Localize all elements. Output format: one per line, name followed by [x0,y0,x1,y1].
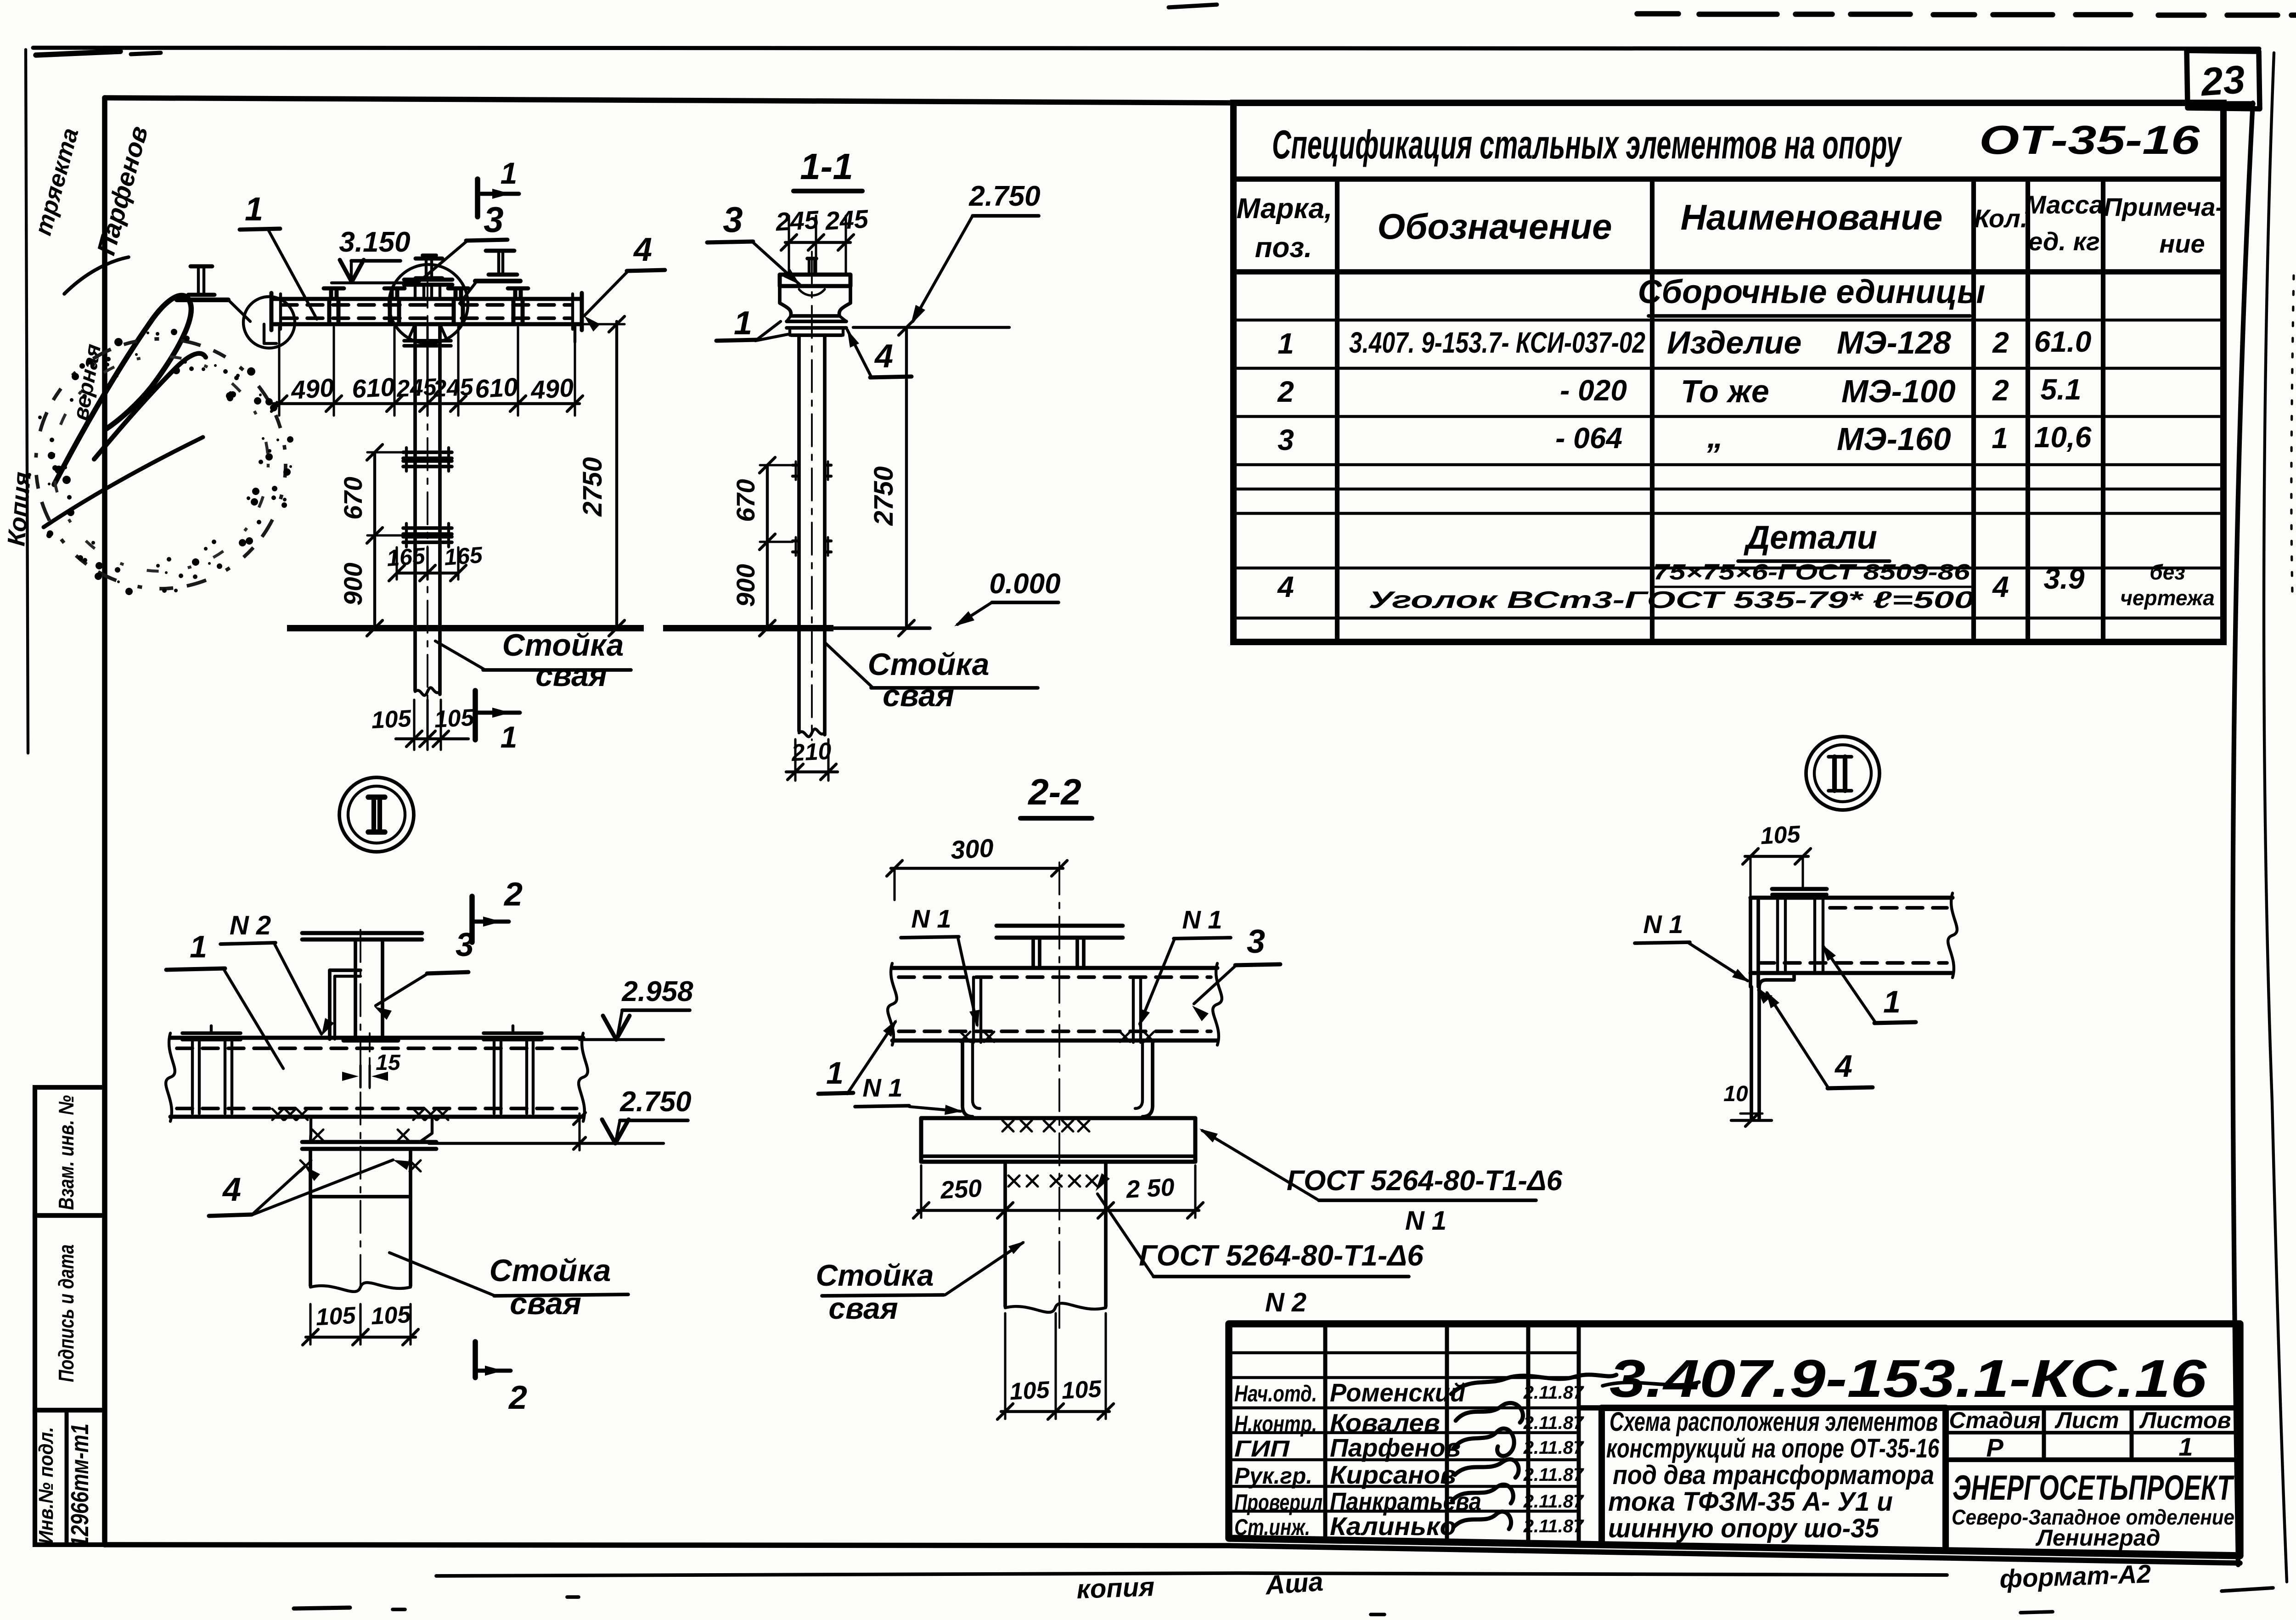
svg-text:формат-А2: формат-А2 [1999,1559,2151,1593]
svg-text:N 1: N 1 [1405,1206,1446,1236]
svg-text:2: 2 [1277,375,1294,408]
svg-text:МЭ-128: МЭ-128 [1837,325,1951,360]
svg-text:2.750: 2.750 [968,180,1040,212]
svg-text:Сборочные единицы: Сборочные единицы [1638,274,1986,310]
svg-text:1: 1 [1883,984,1901,1019]
svg-text:Стойка: Стойка [868,647,990,682]
svg-text:300: 300 [950,833,995,865]
svg-text:2.11.87: 2.11.87 [1523,1491,1584,1512]
svg-text:23: 23 [2199,57,2246,105]
svg-text:Изделие: Изделие [1667,325,1801,360]
svg-text:3.407. 9-153.7- КСИ-037-02: 3.407. 9-153.7- КСИ-037-02 [1349,326,1645,359]
svg-text:1: 1 [190,929,207,964]
svg-text:4: 4 [633,231,652,268]
svg-text:610: 610 [351,372,396,404]
svg-text:чертежа: чертежа [2120,586,2215,610]
svg-text:Лист: Лист [2054,1407,2119,1433]
svg-text:поз.: поз. [1255,232,1312,264]
svg-text:245: 245 [395,374,438,403]
svg-text:490: 490 [290,373,335,405]
svg-text:1: 1 [2178,1432,2193,1461]
svg-text:Роменский: Роменский [1330,1378,1465,1407]
svg-text:61.0: 61.0 [2034,325,2092,358]
svg-text:- 064: - 064 [1555,422,1622,455]
svg-text:610: 610 [474,372,519,404]
svg-text:Калинько: Калинько [1330,1512,1456,1541]
svg-text:210: 210 [790,738,832,767]
svg-text:МЭ-100: МЭ-100 [1841,373,1956,409]
svg-text:2: 2 [508,1379,527,1416]
svg-text:2.958: 2.958 [621,976,693,1007]
svg-text:Масса: Масса [2025,190,2104,219]
svg-text:2 50: 2 50 [1125,1173,1175,1203]
svg-text:Проверил: Проверил [1234,1490,1322,1515]
svg-text:свая: свая [510,1286,581,1321]
svg-text:3.9: 3.9 [2044,562,2085,595]
svg-text:Аша: Аша [1264,1567,1324,1601]
svg-text:ЭНЕРГОСЕТЬПРОЕКТ: ЭНЕРГОСЕТЬПРОЕКТ [1953,1468,2234,1507]
svg-text:ГИП: ГИП [1234,1436,1290,1462]
svg-text:1: 1 [501,720,518,754]
svg-text:2: 2 [1992,326,2009,359]
svg-text:3.150: 3.150 [339,226,410,258]
svg-text:тока ТФЗМ-35 А- У1 и: тока ТФЗМ-35 А- У1 и [1608,1487,1893,1517]
svg-text:Стадия: Стадия [1949,1407,2040,1433]
svg-text:2750: 2750 [578,457,608,517]
svg-text:Рук.гр.: Рук.гр. [1234,1463,1312,1489]
svg-text:3: 3 [484,199,503,240]
svg-text:Стойка: Стойка [816,1258,934,1292]
svg-text:Кирсанов: Кирсанов [1330,1460,1456,1489]
svg-text:Ст.инж.: Ст.инж. [1234,1514,1310,1540]
svg-text:N 1: N 1 [911,904,951,933]
svg-text:4: 4 [1992,570,2009,603]
svg-text:2.750: 2.750 [619,1086,691,1118]
svg-text:Схема расположения элементов: Схема расположения элементов [1609,1407,1938,1437]
svg-text:3: 3 [1277,423,1294,456]
svg-text:1-1: 1-1 [800,146,853,187]
svg-text:Взам. инв. №: Взам. инв. № [54,1095,78,1210]
svg-text:1: 1 [245,191,263,228]
svg-text:900: 900 [338,562,367,605]
svg-text:105: 105 [315,1302,357,1331]
svg-text:10,6: 10,6 [2034,421,2092,454]
svg-text:0.000: 0.000 [989,568,1060,600]
svg-text:670: 670 [338,477,367,519]
svg-text:245: 245 [432,374,474,403]
svg-text:Спецификация стальных элемен: Спецификация стальных элементов на опору [1272,122,1902,167]
svg-text:75×75×6-ГОСТ 8509-86: 75×75×6-ГОСТ 8509-86 [1653,560,1970,585]
svg-text:Листов: Листов [2139,1407,2231,1433]
svg-text:То же: То же [1681,373,1769,409]
svg-text:Детали: Детали [1743,519,1877,556]
svg-text:ед. кг: ед. кг [2028,227,2100,256]
svg-text:2.11.87: 2.11.87 [1523,1383,1584,1403]
svg-text:900: 900 [731,564,760,607]
svg-text:105: 105 [371,705,412,734]
svg-text:5.1: 5.1 [2041,373,2082,406]
svg-text:ОТ-35-16: ОТ-35-16 [1979,117,2200,163]
svg-text:Н.контр.: Н.контр. [1234,1411,1317,1437]
svg-text:Обозначение: Обозначение [1378,206,1612,247]
svg-text:N 1: N 1 [1182,905,1222,934]
svg-text:без: без [2150,560,2185,584]
svg-text:250: 250 [939,1175,982,1204]
svg-text:N 2: N 2 [1265,1288,1306,1317]
svg-text:конструкций на опоре ОТ-35-16: конструкций на опоре ОТ-35-16 [1606,1434,1940,1463]
svg-text:3: 3 [456,927,474,963]
svg-text:10: 10 [1723,1082,1748,1106]
svg-text:Наименование: Наименование [1681,197,1943,237]
svg-text:Ленинград: Ленинград [2035,1525,2160,1551]
svg-text:Стойка: Стойка [502,628,624,663]
svg-text:1: 1 [734,305,752,342]
svg-text:1: 1 [501,156,518,190]
svg-text:105: 105 [370,1301,412,1330]
svg-text:Марка,: Марка, [1237,193,1333,225]
svg-text:3: 3 [1247,923,1265,960]
svg-text:N 2: N 2 [230,911,271,940]
svg-text:ние: ние [2159,229,2205,258]
svg-text:2750: 2750 [869,466,899,526]
svg-text:245: 245 [775,205,820,236]
svg-text:2.11.87: 2.11.87 [1523,1465,1584,1485]
svg-text:Примеча-: Примеча- [2104,192,2224,221]
svg-text:105: 105 [433,704,475,733]
svg-text:Нач.отд.: Нач.отд. [1234,1381,1317,1406]
svg-text:1: 1 [1277,327,1294,360]
svg-text:1: 1 [1992,422,2008,455]
svg-text:- 020: - 020 [1560,374,1627,407]
svg-text:105: 105 [1760,821,1801,850]
svg-text:2.11.87: 2.11.87 [1523,1438,1584,1458]
svg-text:4: 4 [1277,570,1294,603]
svg-text:105: 105 [1009,1377,1051,1406]
svg-text:N 1: N 1 [862,1073,902,1102]
svg-text:N 1: N 1 [1643,910,1683,939]
svg-text:2: 2 [1992,374,2009,407]
svg-text:105: 105 [1061,1376,1103,1405]
svg-text:4: 4 [1834,1049,1852,1084]
svg-text:Подпись и дата: Подпись и дата [54,1244,78,1382]
svg-text:Р: Р [1986,1433,2003,1462]
svg-text:Инв.№ подл.: Инв.№ подл. [35,1427,57,1544]
svg-text:4: 4 [222,1171,241,1208]
svg-text:под два трансформатора: под два трансформатора [1613,1460,1934,1490]
svg-text:2.11.87: 2.11.87 [1523,1516,1584,1536]
svg-text:3.407.9-153.1-КС.16: 3.407.9-153.1-КС.16 [1609,1349,2207,1408]
svg-text:Кол.: Кол. [1974,204,2028,233]
svg-text:свая: свая [883,678,954,713]
svg-text:3: 3 [723,199,743,240]
svg-text:670: 670 [731,479,760,522]
svg-text:ГОСТ 5264-80-Т1-Δ6: ГОСТ 5264-80-Т1-Δ6 [1287,1165,1563,1197]
svg-text:490: 490 [529,373,575,405]
svg-text:Парфенов: Парфенов [1330,1433,1461,1462]
svg-text:МЭ-160: МЭ-160 [1837,421,1951,457]
svg-text:шинную опору шо-35: шинную опору шо-35 [1608,1513,1880,1543]
svg-text:165: 165 [443,542,484,570]
svg-text:Уголок ВСт3-ГОСТ 535-79* ℓ=50: Уголок ВСт3-ГОСТ 535-79* ℓ=500 [1368,587,1975,613]
svg-text:4: 4 [874,338,893,375]
svg-text:копия: копия [1076,1572,1155,1604]
svg-text:165: 165 [386,543,426,571]
svg-text:„: „ [1707,419,1723,455]
svg-text:ГОСТ 5264-80-Т1-Δ6: ГОСТ 5264-80-Т1-Δ6 [1139,1239,1424,1272]
svg-text:свая: свая [535,658,607,693]
svg-text:2.11.87: 2.11.87 [1523,1413,1584,1433]
svg-text:12966тм-т1: 12966тм-т1 [66,1423,94,1547]
svg-text:15: 15 [376,1051,401,1075]
svg-text:2-2: 2-2 [1027,771,1081,812]
svg-text:1: 1 [826,1056,844,1091]
svg-text:2: 2 [503,876,523,913]
svg-text:Стойка: Стойка [490,1253,611,1288]
